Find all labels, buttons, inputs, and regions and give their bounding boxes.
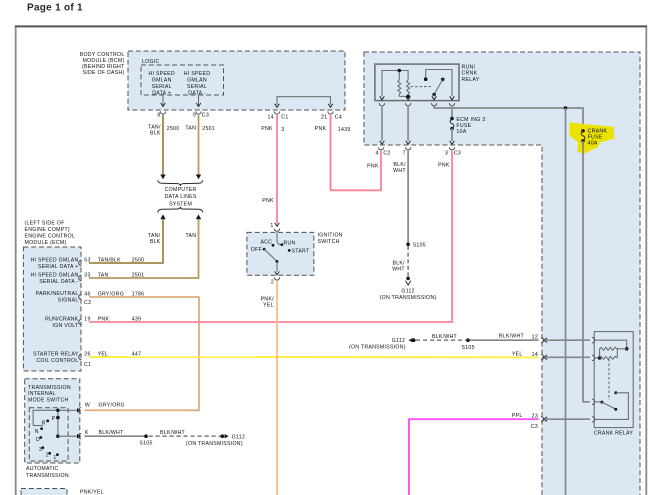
svg-text:HI SPEED GMLAN: HI SPEED GMLAN [30, 258, 78, 264]
svg-text:(ON TRANSMISSION): (ON TRANSMISSION) [380, 295, 437, 301]
svg-text:YEL: YEL [263, 303, 274, 309]
node pin 12 [541, 338, 544, 343]
svg-text:C3: C3 [202, 113, 209, 119]
svg-text:DATA -: DATA - [188, 90, 206, 96]
node pin 9 C3 [196, 111, 201, 114]
svg-text:HI SPEED: HI SPEED [184, 71, 210, 77]
svg-text:S105: S105 [413, 243, 426, 249]
svg-text:TAN: TAN [98, 272, 109, 278]
svg-text:PNK/YEL: PNK/YEL [80, 490, 104, 495]
BCM internal bracket wire [277, 97, 331, 105]
svg-text:K: K [85, 430, 89, 436]
node pin K [77, 434, 81, 438]
svg-text:CRNK: CRNK [462, 71, 478, 77]
node pin 23 C3 [541, 417, 544, 422]
node pin W [77, 408, 81, 412]
svg-text:N: N [35, 429, 39, 435]
svg-text:WHT: WHT [392, 267, 405, 273]
svg-text:G112: G112 [392, 338, 405, 344]
svg-text:ENGINE CONTROL: ENGINE CONTROL [25, 234, 76, 240]
svg-text:D: D [36, 437, 40, 443]
svg-text:C1: C1 [84, 362, 91, 368]
crank fuse highlight [569, 123, 614, 154]
svg-text:GMLAN: GMLAN [187, 77, 207, 83]
wire PNK/YEL from ignition pin 2 [276, 281, 278, 495]
brace top computer data lines [158, 180, 203, 186]
svg-text:PNK: PNK [261, 126, 273, 132]
BCM box [128, 51, 345, 110]
wire TAN 2501 from BCM [198, 115, 200, 175]
svg-text:3: 3 [445, 151, 448, 157]
transmission internal mode switch box [25, 379, 80, 463]
relay coil circuit [380, 69, 411, 100]
svg-text:TAN: TAN [185, 233, 196, 239]
wire pin 23 to crank relay [545, 418, 591, 420]
svg-text:STARTER RELAY: STARTER RELAY [33, 352, 79, 358]
node BCM pin 14 C1 [274, 111, 279, 114]
wire BCM pin 9 stub [198, 95, 200, 106]
ECM label [25, 221, 76, 247]
svg-text:BLK: BLK [150, 239, 161, 245]
svg-text:C1: C1 [281, 114, 288, 120]
svg-text:SERIAL DATA -: SERIAL DATA - [39, 279, 78, 285]
node pin 3 C3 [449, 147, 454, 150]
crank relay pin cups [592, 338, 595, 343]
svg-text:MODE SWITCH: MODE SWITCH [28, 398, 69, 404]
wire pin 14 to crank relay [545, 356, 591, 358]
crank relay switch [594, 391, 628, 419]
node pin 8 C3 [160, 111, 165, 114]
splice S105 (right row) [466, 338, 470, 342]
svg-text:7: 7 [403, 151, 406, 157]
fuse F2 CRANK 40A [581, 129, 607, 147]
wire dashed BLK/WHT S105 to G112 [149, 435, 221, 437]
svg-text:C4: C4 [335, 114, 342, 120]
crank relay coil [594, 340, 628, 400]
svg-text:Page 1 of 1: Page 1 of 1 [27, 2, 83, 13]
svg-text:2: 2 [271, 280, 274, 286]
relay switch [411, 70, 455, 100]
svg-text:2501: 2501 [132, 272, 145, 278]
fuse block box (underhood) [364, 52, 640, 495]
wire BLK/WHT to fuse block pin 12 [470, 339, 539, 341]
node ignition pin 2 [274, 277, 279, 280]
svg-text:BLK/WHT: BLK/WHT [160, 430, 186, 436]
svg-text:R: R [42, 420, 46, 426]
ignition switch contacts [251, 232, 310, 275]
relay pin cups [379, 103, 384, 106]
svg-text:IGN VOLT: IGN VOLT [52, 323, 79, 329]
wire BLK/WHT from pin7 to S105 [407, 151, 409, 243]
wire TAN/BLK from ECM pin 53 [89, 219, 163, 263]
wire GRY/ORG 1786 [85, 297, 200, 410]
svg-text:BLK/WHT: BLK/WHT [432, 334, 458, 340]
svg-text:RUN/: RUN/ [462, 65, 476, 71]
wire relay pin2 to fuseblock pin 7 [407, 106, 409, 141]
svg-text:1: 1 [270, 223, 273, 229]
svg-text:RELAY: RELAY [462, 77, 480, 83]
svg-text:TRANSMISSION: TRANSMISSION [26, 473, 69, 479]
svg-text:9: 9 [193, 113, 196, 119]
svg-text:23: 23 [532, 413, 538, 419]
svg-text:8: 8 [157, 113, 160, 119]
svg-text:ENGINE COMPT): ENGINE COMPT) [25, 227, 70, 233]
wire TAN from ECM pin 33 [89, 219, 199, 278]
logic box [141, 65, 224, 95]
svg-text:21: 21 [321, 114, 327, 120]
svg-text:SWITCH: SWITCH [318, 239, 340, 245]
svg-text:PNK: PNK [262, 198, 274, 204]
svg-text:2501: 2501 [202, 126, 215, 132]
svg-text:RUN: RUN [284, 241, 296, 247]
wire TAN/BLK 2500 from BCM [162, 115, 164, 175]
wire YEL 447 [89, 356, 539, 358]
wire relay switch common rail to crank fuse [434, 106, 583, 131]
svg-text:OFF: OFF [251, 247, 262, 253]
svg-text:C3: C3 [454, 151, 461, 157]
svg-text:COMPUTER: COMPUTER [165, 187, 197, 193]
hi speed gmlan serial data + [148, 71, 174, 97]
wire TAN up-arrow to system [196, 214, 201, 219]
svg-text:10A: 10A [456, 129, 466, 135]
ECM box [23, 247, 81, 371]
inner switch box [29, 408, 68, 461]
svg-text:2500: 2500 [132, 257, 145, 263]
BCM label [80, 52, 125, 76]
wire relay pin1 to fuseblock pin 4 [381, 106, 383, 141]
svg-text:53: 53 [84, 257, 90, 263]
svg-text:40A: 40A [588, 140, 598, 146]
svg-text:3: 3 [39, 447, 42, 453]
crank relay K1 [594, 332, 633, 428]
svg-text:SERIAL DATA +: SERIAL DATA + [38, 264, 79, 270]
svg-text:2: 2 [46, 452, 49, 458]
svg-text:GMLAN: GMLAN [152, 77, 172, 83]
brace bottom computer data lines [158, 207, 203, 213]
wire BLK/WHT dashed to G112 [407, 246, 409, 277]
svg-text:SERIAL: SERIAL [187, 84, 207, 90]
wire PNK 3 from BCM pin 14 [276, 115, 278, 224]
svg-text:SYSTEM: SYSTEM [169, 201, 192, 207]
svg-text:PPL: PPL [512, 413, 523, 419]
svg-text:AUTOMATIC: AUTOMATIC [26, 466, 59, 472]
svg-text:PARK/NEUTRAL: PARK/NEUTRAL [36, 291, 79, 297]
svg-text:SERIAL: SERIAL [152, 84, 172, 90]
hi speed gmlan serial data - [184, 71, 210, 97]
svg-text:(ON TRANSMISSION): (ON TRANSMISSION) [186, 441, 243, 447]
svg-text:PNK: PNK [315, 126, 327, 132]
node BCM pin 21 C4 [328, 111, 333, 114]
svg-text:BLK/WHT: BLK/WHT [499, 334, 525, 340]
svg-text:P: P [52, 416, 56, 422]
wire relay pin4 through ECM ING 3 fuse [451, 106, 453, 119]
splice S105 (upper) [406, 243, 410, 247]
svg-text:G112: G112 [232, 434, 245, 440]
node ignition pin 1 [274, 229, 279, 232]
svg-text:TAN/BLK: TAN/BLK [98, 257, 121, 263]
svg-text:4: 4 [376, 151, 379, 157]
svg-text:WHT: WHT [393, 168, 406, 174]
svg-text:START: START [292, 249, 310, 255]
node computer data lines system (top) [165, 187, 197, 208]
svg-text:TRANSMISSION: TRANSMISSION [28, 385, 71, 391]
run/crnk relay U1 [375, 64, 459, 101]
fuse F1 ECM ING 3 10A [450, 117, 485, 135]
wire BCM pin 8 stub [162, 95, 164, 106]
PPL wire from crank relay pin 23 [409, 419, 539, 495]
svg-text:G112: G112 [401, 289, 414, 295]
svg-text:S105: S105 [139, 441, 152, 447]
svg-text:BLK/WHT: BLK/WHT [99, 430, 125, 436]
svg-text:S105: S105 [462, 345, 475, 351]
svg-text:YEL: YEL [512, 351, 523, 357]
node pin 4 C2 [378, 147, 383, 150]
svg-text:SIDE OF DASH): SIDE OF DASH) [83, 70, 125, 76]
svg-text:C3: C3 [84, 300, 91, 306]
wire feed down right strip [565, 108, 567, 495]
svg-text:12: 12 [532, 334, 538, 340]
svg-text:14: 14 [532, 352, 538, 358]
partial box at bottom [21, 489, 67, 495]
svg-text:RUN/CRANK: RUN/CRANK [45, 317, 79, 323]
svg-text:SIGNAL: SIGNAL [58, 297, 79, 303]
svg-text:ACC: ACC [261, 240, 273, 246]
wire crank fuse to crank relay common [583, 141, 590, 402]
svg-text:GRY/ORG: GRY/ORG [99, 403, 125, 409]
svg-text:CRANK RELAY: CRANK RELAY [594, 431, 634, 437]
svg-text:C2: C2 [383, 151, 390, 157]
node pin 7 [405, 147, 410, 150]
ground G112 (upper) [406, 277, 410, 281]
wire PNK 439 [89, 151, 452, 322]
svg-text:C3: C3 [531, 424, 538, 430]
svg-text:1: 1 [53, 455, 56, 461]
svg-text:33: 33 [84, 272, 90, 278]
svg-text:1439: 1439 [338, 127, 351, 133]
svg-text:2500: 2500 [167, 126, 180, 132]
svg-text:HI SPEED GMLAN: HI SPEED GMLAN [30, 273, 78, 279]
svg-text:HI SPEED: HI SPEED [148, 71, 174, 77]
svg-text:14: 14 [267, 114, 273, 120]
svg-text:(LEFT SIDE OF: (LEFT SIDE OF [25, 221, 65, 227]
svg-text:INTERNAL: INTERNAL [28, 391, 56, 397]
svg-text:PNK: PNK [438, 162, 450, 168]
svg-text:MODULE (ECM): MODULE (ECM) [25, 240, 67, 246]
wire BLK/WHT pin K to S105 [85, 435, 145, 437]
svg-text:TAN: TAN [185, 126, 196, 132]
wire BLK/WHT dashed G112 to S105 [416, 339, 466, 341]
ignition switch box [247, 232, 314, 275]
svg-text:W: W [85, 403, 90, 409]
svg-text:COIL CONTROL: COIL CONTROL [36, 358, 78, 364]
svg-text:DATA +: DATA + [152, 90, 171, 96]
svg-text:LOGIC: LOGIC [142, 59, 160, 65]
svg-text:BLK: BLK [150, 130, 161, 136]
svg-text:(ON TRANSMISSION): (ON TRANSMISSION) [349, 344, 406, 350]
wire pin 12 to crank relay [545, 339, 591, 341]
svg-text:DATA LINES: DATA LINES [165, 194, 197, 200]
svg-text:3: 3 [281, 127, 284, 133]
mode switch contacts [33, 409, 80, 461]
node pin 14 [541, 355, 544, 360]
wire PNK from pin4 to BCM pin 21 [331, 115, 382, 190]
svg-text:PNK: PNK [367, 163, 379, 169]
svg-text:IGNITION: IGNITION [318, 233, 343, 239]
ground G112 (transmission row) [221, 434, 225, 438]
wire TAN/BLK up-arrow to system [160, 214, 165, 219]
